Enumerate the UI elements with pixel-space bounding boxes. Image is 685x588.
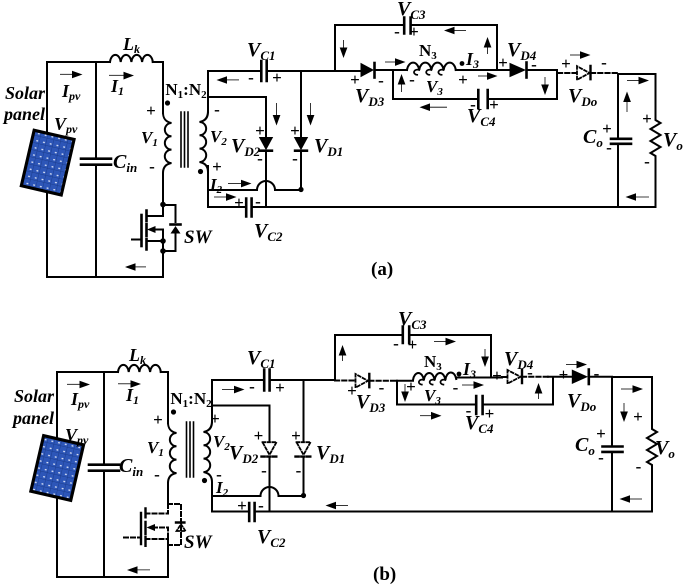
wire: Lk to transformer corner (fig b)	[161, 372, 168, 423]
MOSFET SW body line and source tie (fig a)	[147, 230, 164, 242]
capacitor VC2 plates (fig b)	[249, 503, 254, 521]
diode VD4 cathode bar (fig a)	[525, 63, 528, 78]
svg-text:-: -	[527, 363, 533, 382]
svg-text:-: -	[261, 461, 267, 480]
wire: top rail from left rail to Lk (fig a)	[47, 61, 110, 63]
capacitor VC1 plates (fig a)	[261, 61, 266, 81]
current arrow output bottom pointing left (fig a)	[632, 196, 649, 199]
MOSFET SW source down to rail (fig a)	[162, 241, 164, 277]
diode VD3 cathode bar (fig a)	[373, 63, 376, 78]
wire: VD4 to corner above VDo branch (fig a)	[527, 69, 557, 71]
current arrow Ipv (fig a)	[60, 73, 75, 76]
wire: N3 to VD4 dashes (fig b)	[456, 377, 502, 379]
svg-text:+: +	[561, 54, 571, 73]
svg-text:-: -	[636, 457, 642, 476]
current arrow output top pointing right (fig a)	[627, 79, 641, 82]
wire: VD2 anode branch (fig b)	[212, 406, 270, 442]
current arrow I2 pointing right (fig a)	[228, 182, 243, 185]
svg-text:+: +	[559, 365, 569, 384]
node dot: VD1 cathode to I2 junction (fig b)	[301, 493, 306, 498]
wire: VC2 rail to output (fig b)	[255, 511, 612, 513]
wire: left rail (solar panel loop, fig a)	[46, 62, 48, 277]
node dot: transformer primary polarity dot (fig a)	[165, 100, 170, 105]
wire: VC2 rail long segment to output (fig a)	[252, 206, 618, 208]
svg-text:SW: SW	[184, 227, 213, 248]
svg-text:-: -	[214, 100, 220, 119]
wire: I2 wire with hop over VD2 (fig a)	[208, 181, 301, 190]
svg-text:+: +	[210, 409, 220, 428]
wire: N3 to VD4 (fig a)	[456, 69, 510, 71]
wire: VC2 rail left segment (fig b)	[212, 511, 249, 513]
capacitor VC3 plates (fig b)	[403, 327, 409, 344]
node dot: MOSFET source junction (fig a)	[160, 238, 166, 244]
MOSFET SW gate lead (fig a)	[132, 239, 142, 241]
svg-text:(a): (a)	[371, 259, 393, 280]
transformer T1 core (fig a)	[181, 112, 188, 167]
current arrow up VC3 right edge (fig a)	[486, 43, 489, 54]
capacitor VC3 loop left edge (fig a)	[335, 25, 404, 71]
svg-text:+: +	[212, 157, 222, 176]
transformer T1 primary winding V1 (fig a)	[163, 113, 172, 204]
svg-text:-: -	[258, 496, 264, 515]
capacitor Cin plates (fig b)	[89, 465, 119, 471]
current arrow on VC2 rail pointing left (fig b)	[332, 504, 348, 507]
current arrow up Co branch (fig a)	[626, 98, 629, 112]
node dot: N3 coupling dot (fig a)	[460, 61, 465, 66]
dashed diode VD2 outline (fig b)	[263, 442, 277, 455]
svg-text:-: -	[470, 95, 476, 114]
svg-text:Solar: Solar	[14, 386, 55, 406]
wire: VD2 cathode to VC2 rail (fig b)	[269, 459, 271, 512]
inductor N3 winding (fig a)	[407, 63, 456, 70]
current arrow above VC2 pointing right (fig a)	[214, 196, 228, 199]
transformer T1 secondary winding V2 (fig b)	[204, 422, 213, 512]
svg-text:+: +	[254, 426, 264, 445]
current arrow right of transformer pointing right (fig b)	[222, 388, 236, 391]
wire: Lk to transformer top corner (fig a)	[153, 62, 163, 113]
svg-text:+: +	[275, 378, 285, 397]
svg-text:+: +	[406, 377, 416, 396]
MOSFET SW body-diode triangle (fig a)	[171, 226, 181, 234]
svg-text:+: +	[485, 404, 495, 423]
svg-text:-: -	[149, 157, 155, 176]
inductor N3 bottom curls (fig a)	[414, 70, 444, 75]
capacitor VC1 plates (fig b)	[264, 370, 269, 391]
current arrow on bottom rail pointing left (fig b)	[133, 569, 150, 572]
svg-text:+: +	[492, 366, 502, 385]
svg-text:-: -	[257, 149, 263, 168]
output box top edge (fig b)	[612, 376, 652, 378]
wire: VC1 wire (fig b)	[212, 379, 335, 381]
current arrow I1 (fig a)	[109, 74, 124, 77]
dashed diode VD2 cathode bar (fig b)	[262, 455, 278, 457]
diode VD1 cathode bar (fig a)	[294, 149, 308, 152]
MOSFET SW solid lead to rail (fig b)	[167, 539, 169, 577]
MOSFET SW body-diode branch (fig a)	[163, 205, 176, 251]
capacitor Cin plates (fig a)	[81, 159, 111, 165]
output box bottom edge (fig b)	[612, 511, 652, 513]
dashed diode VD3 outline (fig b)	[356, 374, 369, 388]
wire: VD2 anode branch (fig a)	[208, 97, 266, 137]
svg-text:+: +	[146, 101, 156, 120]
svg-text:-: -	[601, 53, 607, 72]
MOSFET SW drain bend (fig a)	[147, 204, 164, 216]
capacitor VC3 plates (fig a)	[404, 18, 410, 34]
dashed diode VD1 cathode bar (fig b)	[296, 455, 312, 457]
wire: Cin lower vertical (fig a)	[95, 165, 97, 277]
svg-text:-: -	[292, 149, 298, 168]
dashed MOSFET SW body-diode triangle (fig b)	[177, 524, 186, 531]
solar panel graphic (fig a)	[21, 130, 74, 195]
svg-text:+: +	[633, 407, 643, 426]
transformer T1 secondary winding V2 (fig a)	[200, 112, 209, 207]
resistor Vo load zigzag (fig a)	[651, 74, 661, 207]
node dot: transformer primary polarity dot (fig b)	[171, 409, 176, 414]
svg-text:-: -	[594, 364, 600, 383]
dashed diode VD3 cathode bar (fig b)	[368, 374, 370, 388]
dashed MOSFET SW body-diode bar (fig b)	[176, 521, 186, 523]
svg-text:+: +	[291, 426, 301, 445]
svg-text:+: +	[153, 410, 163, 429]
dashed wire: VD3 cathode lead (fig b)	[369, 380, 397, 382]
svg-text:+: +	[347, 381, 357, 400]
output box bottom edge (fig a)	[618, 206, 656, 208]
current arrow left of VC1 (fig a)	[224, 79, 239, 82]
dashed MOSFET SW gate lead (fig b)	[124, 537, 141, 539]
current arrow up VC4 box left (fig a)	[400, 80, 403, 92]
wire: box corner to N3 (fig b)	[397, 380, 413, 382]
svg-text:panel: panel	[11, 408, 54, 428]
current arrow down VC3 left edge (fig a)	[342, 40, 345, 51]
svg-text:+: +	[272, 68, 282, 87]
MOSFET SW gate bar (fig a)	[140, 215, 143, 246]
svg-text:+: +	[290, 121, 300, 140]
inductor N3 bottom curls (fig b)	[419, 380, 446, 385]
svg-text:+: +	[408, 335, 418, 354]
svg-text:+: +	[596, 424, 606, 443]
capacitor Co plates (fig b)	[603, 447, 623, 452]
transformer T1 primary winding V1 (fig b)	[168, 423, 177, 504]
wire: box top-left to inductor N3 (fig a)	[393, 69, 407, 71]
current arrow output bottom pointing left (fig b)	[626, 498, 642, 501]
wire: secondary top lead up to VC1 level (fig a)	[207, 71, 209, 112]
node dot: N3 coupling dot (fig b)	[457, 372, 462, 377]
current arrow down VD1 branch (fig a)	[309, 103, 312, 118]
svg-text:+: +	[350, 70, 360, 89]
capacitor Co plates (fig a)	[611, 139, 631, 144]
svg-text:-: -	[393, 334, 399, 353]
dashed MOSFET SW drain bend (fig b)	[146, 504, 168, 514]
dashed diode VD1 outline (fig b)	[297, 442, 311, 455]
dashed MOSFET SW gate bar (fig b)	[140, 513, 142, 544]
node dot: transformer secondary polarity dot (fig b)	[202, 478, 207, 483]
output box left edge with Co (fig a)	[617, 74, 619, 207]
diode VDo triangle (fig b)	[572, 370, 588, 385]
svg-text:+: +	[409, 22, 419, 41]
dashed diode VD4 cathode bar (fig b)	[521, 370, 523, 384]
current arrow Ipv (fig b)	[67, 383, 82, 386]
wire: VD1 cathode to I2 wire (fig b)	[303, 459, 305, 496]
svg-text:-: -	[644, 152, 650, 171]
dashed wire: VD3 anode lead (fig b)	[335, 380, 355, 382]
svg-text:+: +	[498, 53, 508, 72]
current arrow up VC3 left edge (fig b)	[341, 351, 344, 361]
inductor Lk (fig a)	[110, 55, 153, 62]
diode VD2 cathode wire (fig a)	[265, 151, 267, 207]
inductor N3 winding (fig b)	[413, 372, 456, 380]
dashed diode VDo cathode bar (fig a)	[589, 66, 591, 80]
svg-text:-: -	[606, 138, 612, 157]
current arrow after VD3 pointing right (fig a)	[385, 61, 398, 64]
dashed MOSFET SW body-diode branch (fig b)	[168, 504, 181, 545]
wire: VDo anode lead solid (fig b)	[548, 376, 572, 378]
MOSFET SW body-diode cathode bar (fig a)	[171, 223, 181, 226]
wire: VD3 to VC4 box corner (fig a)	[375, 69, 393, 71]
dashed diode VD4 outline (fig b)	[508, 370, 521, 384]
dashed MOSFET SW body line and tie (fig b)	[146, 528, 169, 540]
capacitor VC3 loop right side (fig a)	[411, 25, 497, 69]
svg-text:-: -	[296, 461, 302, 480]
wire: secondary top lead (fig b)	[211, 380, 213, 422]
solar panel graphic (fig b)	[31, 436, 84, 501]
node dot: body-diode bottom junction (fig a)	[160, 248, 166, 254]
svg-text:+: +	[602, 119, 612, 138]
diode VD1 triangle (fig a)	[294, 137, 308, 150]
wire: bottom rail (fig a)	[47, 276, 163, 278]
diode VD3 triangle (fig a)	[361, 63, 375, 77]
capacitor VC2 plates (fig a)	[246, 199, 251, 217]
capacitor VC4 plates (fig b)	[476, 396, 482, 414]
MOSFET SW body arrow head (fig a)	[147, 226, 156, 233]
VC4 box left edge (fig b)	[397, 381, 476, 405]
svg-text:SW: SW	[184, 532, 213, 553]
current arrow down Co branch (fig b)	[623, 403, 626, 415]
svg-text:+: +	[489, 95, 499, 114]
wire: Cin branch lower (fig b)	[103, 471, 105, 577]
diode VD2 triangle (fig a)	[259, 137, 273, 150]
current arrow up inside box right edge (fig b)	[537, 389, 540, 399]
current arrow down VC4 box left (fig b)	[404, 384, 407, 395]
svg-text:N1:N2: N1:N2	[165, 80, 207, 101]
resistor Vo load zigzag (fig b)	[647, 377, 657, 512]
output box top edge (fig a)	[618, 73, 656, 75]
svg-text:panel: panel	[2, 104, 45, 124]
svg-text:-: -	[154, 465, 160, 484]
output box left edge with Co (fig b)	[611, 377, 613, 512]
current arrow down VC3 right edge (fig b)	[484, 349, 487, 360]
current arrow above VDo pointing right (fig b)	[566, 363, 579, 366]
svg-text:(b): (b)	[373, 564, 396, 585]
svg-text:+: +	[234, 193, 244, 212]
wire: secondary bottom lead (fig a)	[207, 166, 209, 207]
VC4 box bottom and right edge (fig b)	[483, 377, 553, 405]
svg-text:-: -	[394, 22, 400, 41]
svg-text:+: +	[642, 109, 652, 128]
VC4 box left edge (fig a)	[393, 70, 478, 99]
svg-text:-: -	[378, 71, 384, 90]
svg-text:-: -	[531, 55, 537, 74]
svg-text:Solar: Solar	[5, 83, 46, 103]
current arrow down inside box right edge (fig a)	[544, 77, 547, 88]
wire: VD1 anode drop from VC1 wire (fig a)	[300, 71, 302, 137]
current arrow above VDo pointing right (fig a)	[570, 54, 583, 57]
dashed wire: VD4 anode lead (fig b)	[502, 376, 507, 378]
diode VD1 cathode wire (fig a)	[300, 151, 302, 190]
current arrow down VD2 branch (fig a)	[275, 103, 278, 118]
wire: VDo to output box (fig b)	[589, 376, 612, 378]
svg-text:-: -	[255, 192, 261, 211]
wire: VC2 rail left segment (fig a)	[208, 206, 246, 208]
current arrow output top pointing right (fig b)	[621, 388, 635, 391]
current arrow after N3 pointing right (fig b)	[462, 384, 476, 387]
wire: VD1 anode drop (fig b)	[303, 380, 305, 441]
svg-text:N1:N2: N1:N2	[170, 389, 212, 410]
current arrow on VC3 top pointing left (fig a)	[451, 29, 466, 32]
svg-text:-: -	[466, 401, 472, 420]
svg-text:-: -	[453, 378, 459, 397]
inductor Lk (fig b)	[118, 365, 161, 372]
VC4 box bottom and right edge (fig a)	[488, 70, 557, 99]
svg-text:-: -	[409, 70, 415, 89]
wire: Cin branch vertical (fig a)	[95, 62, 97, 158]
current arrow on VC3 top pointing right (fig b)	[434, 340, 448, 343]
dashed wire: VDo anode lead (fig a)	[558, 72, 577, 74]
svg-text:-: -	[248, 68, 254, 87]
current arrow on VC4 bottom pointing right (fig b)	[420, 414, 434, 417]
wire: top rail to Lk (fig b)	[57, 371, 118, 373]
current arrow on bottom rail pointing left (fig a)	[131, 266, 146, 269]
current arrow on VC4 bottom pointing left (fig a)	[426, 106, 447, 109]
svg-text:-: -	[216, 465, 222, 484]
diode VD4 triangle (fig a)	[510, 63, 527, 77]
node dot: VD1 cathode to I2 wire junction (fig a)	[298, 187, 303, 192]
svg-text:+: +	[255, 121, 265, 140]
capacitor VC3 loop left edge (fig b)	[335, 335, 403, 380]
wire: I2 wire with hop (fig b)	[212, 487, 304, 496]
svg-text:+: +	[237, 496, 247, 515]
wire: bottom rail (fig b)	[57, 576, 168, 578]
svg-text:+: +	[458, 70, 468, 89]
node dot: MOSFET drain junction (fig a)	[160, 202, 166, 208]
wire: Cin branch upper (fig b)	[103, 372, 105, 464]
svg-text:-: -	[379, 378, 385, 397]
svg-text:-: -	[249, 377, 255, 396]
dashed wire: VD4 cathode lead (fig b)	[522, 376, 548, 378]
node dot: transformer secondary polarity dot (fig a)	[198, 169, 203, 174]
current arrow I1 (fig b)	[118, 382, 133, 385]
wire: VC1 wire from transformer to diode VD3 (fig a)	[208, 70, 361, 72]
wire: left rail (fig b)	[56, 372, 58, 577]
dashed wire: VDo cathode lead to output (fig a)	[591, 72, 618, 74]
MOSFET SW channel bar (fig a)	[145, 211, 148, 250]
dashed MOSFET SW channel bar (fig b)	[144, 509, 146, 548]
current arrow before VD4 pointing right (fig a)	[478, 75, 490, 78]
svg-text:-: -	[598, 448, 604, 467]
capacitor VC3 loop right side (fig b)	[409, 335, 491, 377]
transformer T1 core (fig b)	[187, 422, 194, 477]
dashed diode VDo outline (fig a)	[577, 66, 590, 80]
MOSFET SW solid lead above (fig b)	[167, 483, 169, 504]
capacitor VC4 plates (fig a)	[478, 90, 487, 108]
diode VD2 cathode bar (fig a)	[259, 149, 273, 152]
dashed MOSFET SW body arrow head (fig b)	[147, 524, 156, 531]
diode VDo cathode bar (fig b)	[587, 370, 590, 385]
